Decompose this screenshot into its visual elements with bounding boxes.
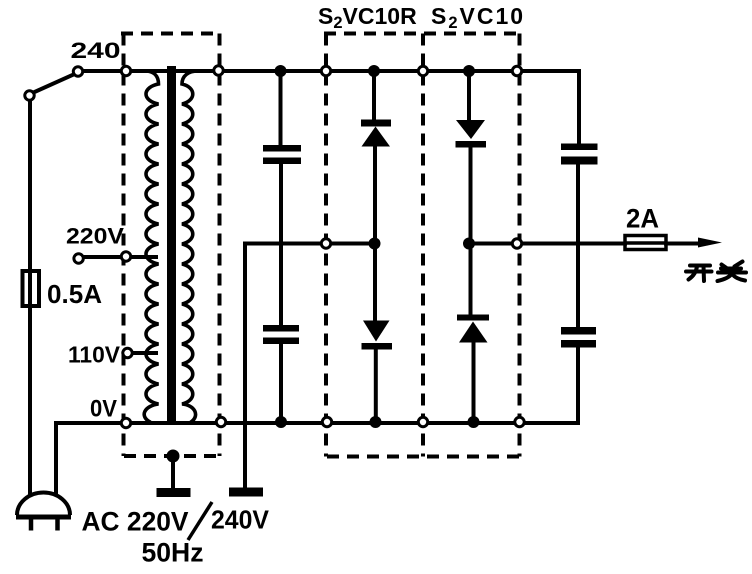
svg-text:0V: 0V	[90, 396, 117, 423]
svg-text:2A: 2A	[626, 204, 659, 234]
svg-text:S2VC10R: S2VC10R	[318, 3, 417, 32]
svg-text:240V: 240V	[211, 507, 269, 535]
svg-text:AC 220V: AC 220V	[82, 507, 189, 537]
svg-text:220V: 220V	[66, 224, 124, 249]
svg-text:240: 240	[71, 38, 121, 63]
svg-text:S2VC10: S2VC10	[431, 3, 525, 32]
svg-text:110V: 110V	[68, 342, 121, 368]
svg-text:50Hz: 50Hz	[142, 538, 204, 568]
svg-text:0.5A: 0.5A	[47, 279, 102, 309]
